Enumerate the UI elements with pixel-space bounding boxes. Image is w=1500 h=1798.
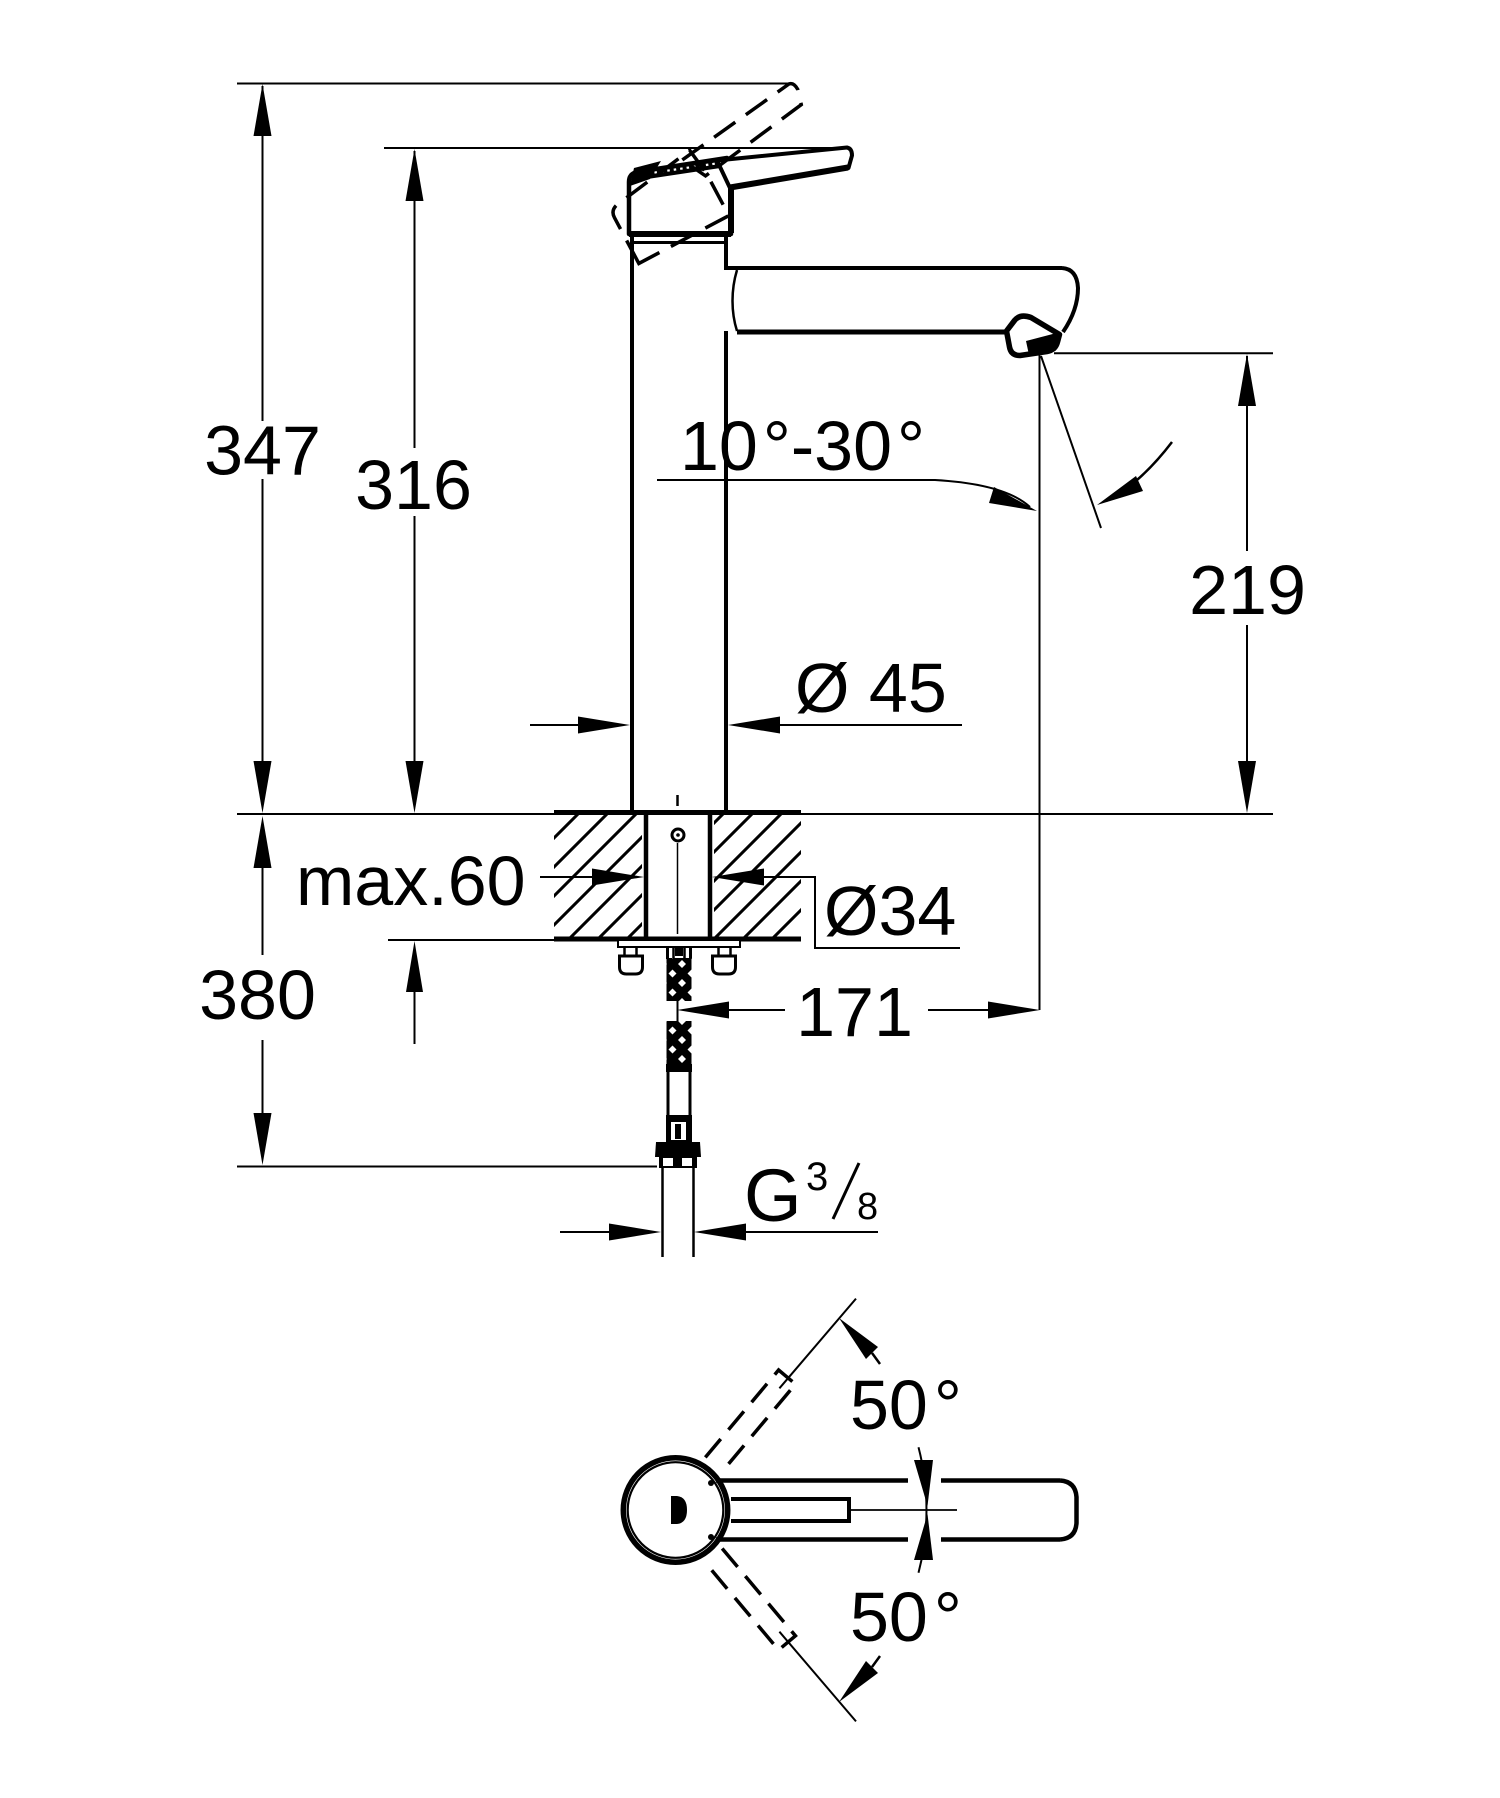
upper lever angular arrow xyxy=(839,1318,880,1364)
handle indicator wedge xyxy=(630,161,661,186)
svg-text:50°: 50° xyxy=(850,1366,962,1444)
hose lower tube xyxy=(666,1064,692,1115)
body circle outer xyxy=(623,1458,727,1562)
ref line top of lever (316 datum) xyxy=(384,147,848,149)
shank through counter xyxy=(646,812,710,939)
counter section right hatch xyxy=(714,814,801,939)
lower 50 extension line xyxy=(779,1632,856,1722)
svg-text:50°: 50° xyxy=(850,1578,962,1656)
hose end fitting xyxy=(666,1115,692,1142)
coupling nut xyxy=(655,1142,701,1168)
10-30 leader arrow xyxy=(657,480,1037,511)
handle lever xyxy=(717,148,852,189)
svg-text:G: G xyxy=(744,1154,802,1237)
outlet vertical reference line xyxy=(1039,355,1041,1010)
max.60 bottom arrow xyxy=(406,941,423,1044)
diameter 45 dimension xyxy=(530,717,962,734)
outlet angle line xyxy=(1041,356,1101,528)
counter bottom edge xyxy=(554,937,801,942)
hose top fitting xyxy=(668,947,691,959)
dimension 380 line xyxy=(254,816,272,1165)
shank centerline xyxy=(672,795,684,934)
supply pipe xyxy=(663,1168,694,1257)
lever plan view xyxy=(731,1499,849,1521)
spout xyxy=(726,268,1078,332)
faucet column xyxy=(632,236,726,812)
svg-text:171: 171 xyxy=(796,973,913,1051)
dimension 316 line xyxy=(406,149,424,813)
dimension 171 xyxy=(677,1002,1040,1019)
counter top edge xyxy=(554,810,801,815)
outlet aerator xyxy=(1007,316,1060,355)
mounting washer xyxy=(618,940,740,947)
svg-text:8: 8 xyxy=(857,1186,878,1228)
svg-text:219: 219 xyxy=(1189,551,1306,629)
centerline angular arrows xyxy=(914,1460,933,1506)
svg-text:3: 3 xyxy=(806,1155,828,1199)
max.60 right leader arrow to O34 xyxy=(712,869,960,949)
G 3/8 label xyxy=(744,1154,878,1237)
max.60 left leader arrow xyxy=(540,869,644,886)
right mounting bolt xyxy=(713,947,736,974)
ref line hose end (380 datum) xyxy=(237,1166,657,1168)
curved arrow to angle line xyxy=(1097,442,1172,505)
spout plan view xyxy=(716,1481,1077,1540)
svg-text:max.60: max.60 xyxy=(296,842,526,920)
upper 50 extension line xyxy=(779,1299,856,1389)
ref line top of raised lever (347 datum) xyxy=(237,83,789,85)
spout-circle junction dots xyxy=(708,1480,714,1486)
dashed raised handle position xyxy=(598,82,835,264)
G 3/8 dimension arrows xyxy=(560,1224,878,1241)
dimension 219 line xyxy=(1238,354,1256,813)
mounting plane reference line xyxy=(237,813,1273,815)
counter bottom extension line xyxy=(388,939,554,941)
dashed lever swung down 50 xyxy=(705,1549,795,1650)
left mounting bolt xyxy=(620,947,643,974)
dashed lever swung up 50 xyxy=(705,1370,795,1471)
lower lever angular arrow xyxy=(839,1656,880,1702)
handle body xyxy=(629,158,731,234)
svg-text:Ø 45: Ø 45 xyxy=(795,649,947,727)
svg-text:347: 347 xyxy=(204,412,321,490)
braided hose xyxy=(667,958,692,1065)
center slot xyxy=(671,1496,687,1524)
svg-text:380: 380 xyxy=(199,956,316,1034)
body circle inner xyxy=(628,1462,724,1558)
angular arc at centerline xyxy=(919,1447,927,1573)
svg-text:316: 316 xyxy=(355,446,472,524)
counter section left hatch xyxy=(554,814,642,939)
spout centerline xyxy=(849,1509,957,1511)
ref line outlet (219 datum) xyxy=(1054,352,1273,354)
dimension 347 line xyxy=(254,84,272,813)
svg-text:Ø34: Ø34 xyxy=(824,872,956,950)
svg-text:10°-30°: 10°-30° xyxy=(680,407,925,485)
